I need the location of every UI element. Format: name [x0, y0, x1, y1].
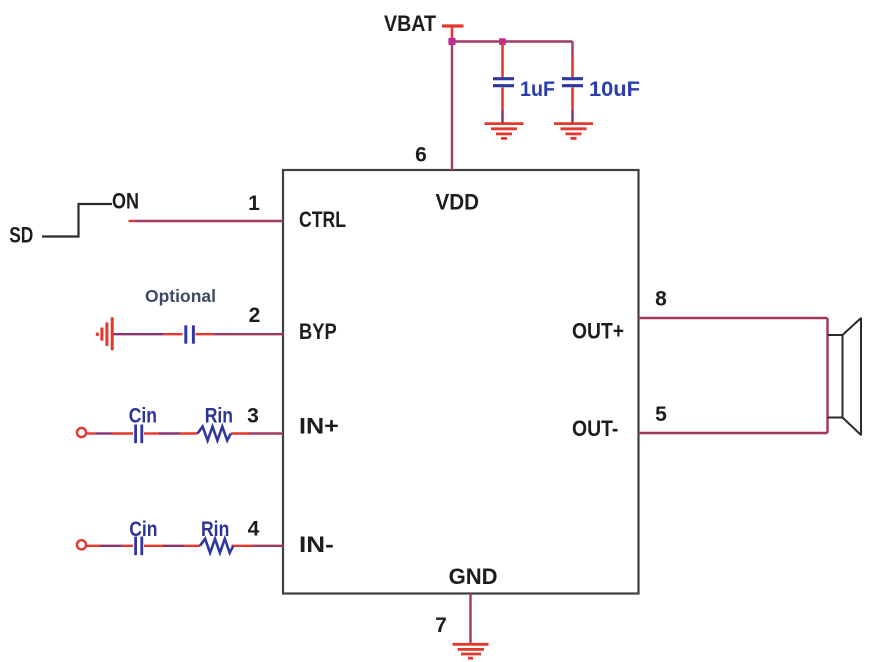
capacitor C2 10uF [562, 42, 583, 123]
svg-text:8: 8 [655, 288, 667, 311]
power symbol VBAT [442, 26, 464, 41]
svg-text:Cin: Cin [129, 518, 157, 541]
terminal IN- [77, 540, 86, 549]
ground under C1 [485, 124, 524, 139]
capacitor Cin (IN-) [136, 537, 142, 556]
svg-text:3: 3 [247, 405, 259, 428]
junction at C1 tap [499, 38, 506, 45]
svg-text:Rin: Rin [205, 405, 233, 428]
svg-text:VDD: VDD [436, 190, 480, 215]
svg-text:6: 6 [415, 144, 427, 167]
svg-text:10uF: 10uF [589, 78, 640, 101]
svg-text:1: 1 [248, 192, 260, 215]
wire OUT- [639, 432, 828, 434]
ground at pin 7 [453, 644, 489, 658]
wire speaker vertical [826, 318, 828, 433]
wire IN+ [87, 432, 284, 434]
svg-text:VBAT: VBAT [384, 11, 436, 36]
svg-text:2: 2 [249, 304, 261, 327]
wire IN- [87, 545, 284, 547]
wire CTRL [129, 220, 284, 222]
capacitor Cin (IN+) [136, 425, 142, 444]
wire BYP left [114, 333, 183, 335]
svg-text:Cin: Cin [129, 405, 157, 428]
wire VDD vertical [451, 42, 453, 171]
IC U1 body [283, 170, 639, 594]
terminal IN+ [77, 428, 86, 437]
svg-text:IN+: IN+ [299, 414, 339, 439]
resistor Rin (IN-) [200, 539, 233, 553]
capacitor C1 1uF [493, 42, 514, 123]
wire BYP right [196, 333, 284, 335]
svg-text:CTRL: CTRL [299, 207, 346, 232]
ground BYP rotated [97, 317, 112, 350]
switch SD wire [42, 204, 112, 237]
capacitor BYP [186, 325, 194, 343]
wire VBAT rail horizontal [452, 40, 573, 42]
svg-text:GND: GND [449, 564, 498, 589]
svg-text:SD: SD [9, 223, 33, 248]
svg-text:BYP: BYP [299, 319, 337, 344]
svg-text:ON: ON [112, 189, 139, 214]
ground under C2 [554, 124, 593, 139]
svg-text:OUT+: OUT+ [572, 319, 624, 344]
svg-text:7: 7 [435, 614, 447, 637]
junction at VBAT node [448, 38, 455, 45]
svg-text:4: 4 [248, 518, 260, 541]
wire OUT+ [639, 317, 828, 319]
speaker LS1 [828, 318, 861, 436]
svg-text:IN-: IN- [299, 532, 334, 557]
svg-text:1uF: 1uF [520, 78, 555, 101]
svg-text:OUT-: OUT- [572, 416, 618, 441]
wire GND [469, 594, 471, 644]
svg-text:Optional: Optional [145, 286, 216, 306]
svg-text:5: 5 [655, 403, 667, 426]
resistor Rin (IN+) [198, 427, 231, 441]
